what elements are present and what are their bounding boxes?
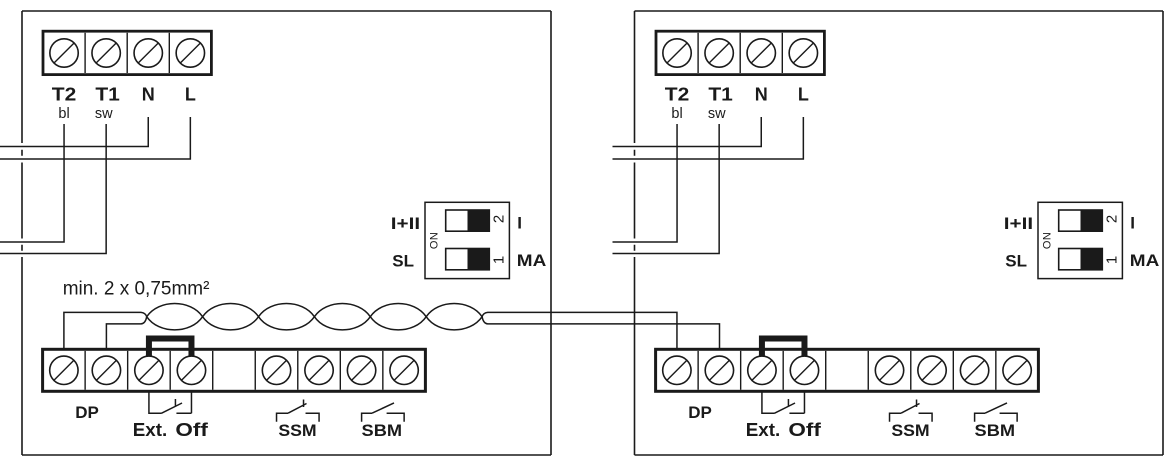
- wire L mains pump 1: [0, 117, 190, 159]
- wire T1/sw to sensor cable pump 1: [0, 124, 106, 254]
- svg-text:SBM: SBM: [362, 421, 403, 440]
- jumper across Ext.Off terminals pump 2: [762, 339, 805, 357]
- svg-text:SL: SL: [1005, 252, 1027, 271]
- terminal DP-1 pump 1: [50, 356, 78, 384]
- svg-text:SL: SL: [392, 252, 414, 271]
- DIP position 2 slider pump 1: [446, 210, 490, 231]
- switch contact SBM (run signal NO contact) pump 1: [362, 403, 405, 422]
- terminal SBM-8 pump 1: [347, 356, 375, 384]
- DIP position 1 slider pump 1: [446, 249, 490, 270]
- svg-text:Ext.: Ext.: [746, 420, 781, 440]
- DIP switch S1 pump 1: [425, 202, 509, 278]
- svg-text:I+II: I+II: [1004, 214, 1033, 233]
- svg-text:T1: T1: [95, 85, 120, 105]
- enclosure pump 1 (dash-dot wire crossings): [22, 11, 551, 455]
- wire DP twisted-pair strand A (pump1 terminal 1, crosses to pump2 terminal 2): [64, 304, 720, 350]
- terminal DP-2 pump 1: [92, 356, 120, 384]
- svg-text:2: 2: [1104, 215, 1121, 223]
- switch contact SBM (run signal NO contact) pump 2: [975, 403, 1018, 422]
- terminal ExtOff-3 pump 2: [748, 356, 776, 384]
- switch contact Ext. Off (NC break contact) pump 1: [149, 392, 192, 413]
- svg-text:Ext.: Ext.: [133, 420, 168, 440]
- svg-text:Off: Off: [175, 420, 209, 440]
- enclosure pump 2 (dash-dot wire crossings): [635, 11, 1164, 455]
- DIP position 2 slider pump 2: [1059, 210, 1103, 231]
- terminal N pump 2: [747, 39, 775, 67]
- svg-text:1: 1: [491, 256, 508, 264]
- switch contact SSM (fault signal changeover) pump 1: [277, 400, 320, 422]
- wire DP twisted-pair strand B (pump1 terminal 2, crosses to pump2 terminal 1): [106, 304, 677, 350]
- svg-text:T1: T1: [708, 85, 733, 105]
- switch contact SSM (fault signal changeover) pump 2: [890, 400, 933, 422]
- svg-text:SBM: SBM: [975, 421, 1016, 440]
- terminal DP-1 pump 2: [663, 356, 691, 384]
- terminal T2 pump 1: [50, 39, 78, 67]
- svg-text:MA: MA: [1130, 251, 1160, 270]
- svg-text:DP: DP: [688, 403, 712, 422]
- terminal L pump 1: [176, 39, 204, 67]
- svg-text:min. 2 x 0,75mm²: min. 2 x 0,75mm²: [63, 279, 210, 300]
- svg-text:ON: ON: [429, 232, 441, 250]
- svg-text:N: N: [142, 85, 155, 105]
- terminal T1 pump 2: [705, 39, 733, 67]
- terminal block X2 pump 2 (DP / Ext.Off / SSM / SBM): [656, 349, 1039, 391]
- wire N mains pump 1: [0, 117, 148, 147]
- terminal SSM-6 pump 2: [875, 356, 903, 384]
- svg-text:Off: Off: [788, 420, 822, 440]
- terminal block X1 pump 1 (T2 T1 N L): [43, 31, 211, 74]
- terminal ExtOff-3 pump 1: [135, 356, 163, 384]
- svg-text:I: I: [1130, 214, 1135, 233]
- svg-text:I+II: I+II: [391, 214, 420, 233]
- terminal SBM-9 pump 1: [390, 356, 418, 384]
- svg-text:N: N: [755, 85, 768, 105]
- svg-text:T2: T2: [52, 85, 77, 105]
- svg-text:sw: sw: [95, 106, 113, 122]
- svg-text:DP: DP: [75, 403, 99, 422]
- wire L mains pump 2: [613, 117, 804, 159]
- wire T2/bl stub pump 2: [613, 124, 678, 242]
- terminal N pump 1: [134, 39, 162, 67]
- svg-text:bl: bl: [671, 106, 682, 122]
- svg-text:1: 1: [1104, 256, 1121, 264]
- DIP position 1 slider pump 2: [1059, 249, 1103, 270]
- terminal SBM-8 pump 2: [960, 356, 988, 384]
- wire N mains pump 2: [613, 117, 762, 147]
- terminal SBM-9 pump 2: [1003, 356, 1031, 384]
- terminal SSM-6 pump 1: [262, 356, 290, 384]
- svg-text:I: I: [517, 214, 522, 233]
- terminal T1 pump 1: [92, 39, 120, 67]
- wire T1/sw stub pump 2: [613, 124, 720, 254]
- terminal ExtOff-4 pump 2: [790, 356, 818, 384]
- svg-text:sw: sw: [708, 106, 726, 122]
- terminal ExtOff-4 pump 1: [177, 356, 205, 384]
- svg-text:T2: T2: [665, 85, 690, 105]
- svg-text:L: L: [798, 85, 809, 105]
- switch contact Ext. Off (NC break contact) pump 2: [762, 392, 805, 413]
- jumper across Ext.Off terminals pump 1: [149, 339, 192, 357]
- svg-text:bl: bl: [58, 106, 69, 122]
- terminal block X2 pump 1 (DP / Ext.Off / SSM / SBM): [43, 349, 426, 391]
- svg-text:L: L: [185, 85, 196, 105]
- terminal SSM-7 pump 2: [918, 356, 946, 384]
- terminal block X1 pump 2 (T2 T1 N L): [656, 31, 824, 74]
- terminal SSM-7 pump 1: [305, 356, 333, 384]
- terminal T2 pump 2: [663, 39, 691, 67]
- svg-text:SSM: SSM: [891, 421, 929, 440]
- svg-text:SSM: SSM: [278, 421, 316, 440]
- terminal L pump 2: [789, 39, 817, 67]
- svg-text:ON: ON: [1042, 232, 1054, 250]
- svg-text:2: 2: [491, 215, 508, 223]
- wire T2/bl to sensor cable pump 1: [0, 124, 64, 242]
- DIP switch S1 pump 2: [1038, 202, 1122, 278]
- terminal DP-2 pump 2: [705, 356, 733, 384]
- svg-text:MA: MA: [517, 251, 547, 270]
